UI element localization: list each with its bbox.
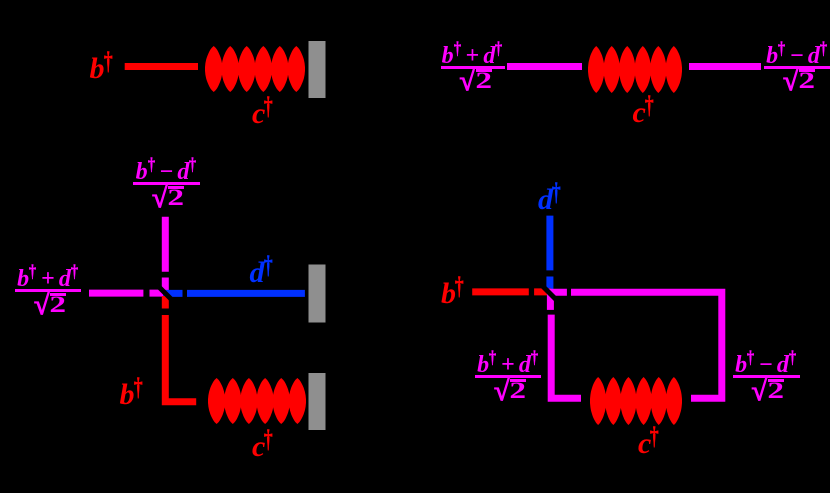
label b-dagger (top-left input): [90, 54, 115, 84]
label fraction (b-d)/sqrt2 (top-right right): [764, 47, 830, 95]
wire: magenta vertical dash below BS2: [547, 294, 554, 310]
cavity mode c (top-right coil): [588, 46, 682, 93]
wire: red beam b into BS2: [472, 288, 529, 295]
label fraction (b+d)/sqrt2 (bottom-right left): [475, 356, 541, 404]
wire: blue beam d to mirror (bottom-left): [187, 290, 305, 297]
wire: magenta horizontal dash at BS1: [150, 290, 167, 297]
wire: magenta loop left (left side, bottom left segment): [551, 315, 581, 399]
wire: magenta loop right (top bar, right side, bottom right segment): [571, 292, 722, 398]
label c-dagger (top-left cavity): [252, 99, 275, 129]
mirror M3 (bottom-left, lower): [309, 373, 326, 430]
wire: red elbow beam b to cavity (bottom-left): [165, 315, 196, 402]
label d-dagger (bottom-right blue input): [538, 185, 563, 215]
label fraction (b-d)/sqrt2 (bottom-left top): [133, 163, 200, 211]
wire: magenta vertical dash at BS1: [162, 278, 169, 295]
wire: magenta dash right of BS2: [549, 289, 567, 296]
beam splitter BS2 (diagonal plate): [541, 285, 559, 303]
mirror M1 (top-left): [309, 41, 326, 98]
mirror M2 (bottom-left, upper): [309, 265, 326, 323]
label fraction (b-d)/sqrt2 (bottom-right right): [733, 356, 800, 404]
label b-dagger (bottom-right red input): [441, 279, 466, 309]
wire: blue dash at BS2: [546, 277, 553, 294]
cavity mode c (top-left coil): [205, 46, 305, 92]
wire: blue dash out of BS1: [163, 290, 183, 297]
label c-dagger (bottom-left cavity): [252, 432, 275, 462]
label c-dagger (bottom-right cavity): [638, 429, 661, 459]
cavity mode c (bottom-right coil): [590, 377, 682, 425]
wire: red dash below BS1: [162, 296, 169, 309]
wire: magenta horizontal beam (b+d)/sqrt2 into BS1: [89, 290, 143, 297]
wire: magenta vertical beam (b-d)/sqrt2 into BS1 (bottom-left): [162, 217, 169, 272]
label d-dagger (bottom-left blue beam): [250, 258, 275, 288]
label b-dagger (bottom-left red beam): [120, 380, 145, 410]
label fraction (b+d)/sqrt2 (top-right left): [441, 47, 505, 95]
wire: red dash at BS2: [534, 288, 551, 295]
wire: magenta beam (b-d)/sqrt2 (top-right right segment): [689, 63, 761, 70]
wire: blue vertical beam d into BS2 (bottom-right): [546, 216, 553, 271]
wire: magenta beam (b+d)/sqrt2 (top-right left segment): [507, 63, 582, 70]
cavity mode c (bottom-left coil): [208, 378, 306, 424]
label c-dagger (top-right cavity): [633, 98, 656, 128]
label fraction (b+d)/sqrt2 (bottom-left left): [15, 270, 81, 318]
wire: red input beam b (top-left): [125, 63, 198, 70]
beam splitter BS1 (diagonal plate): [157, 285, 175, 303]
